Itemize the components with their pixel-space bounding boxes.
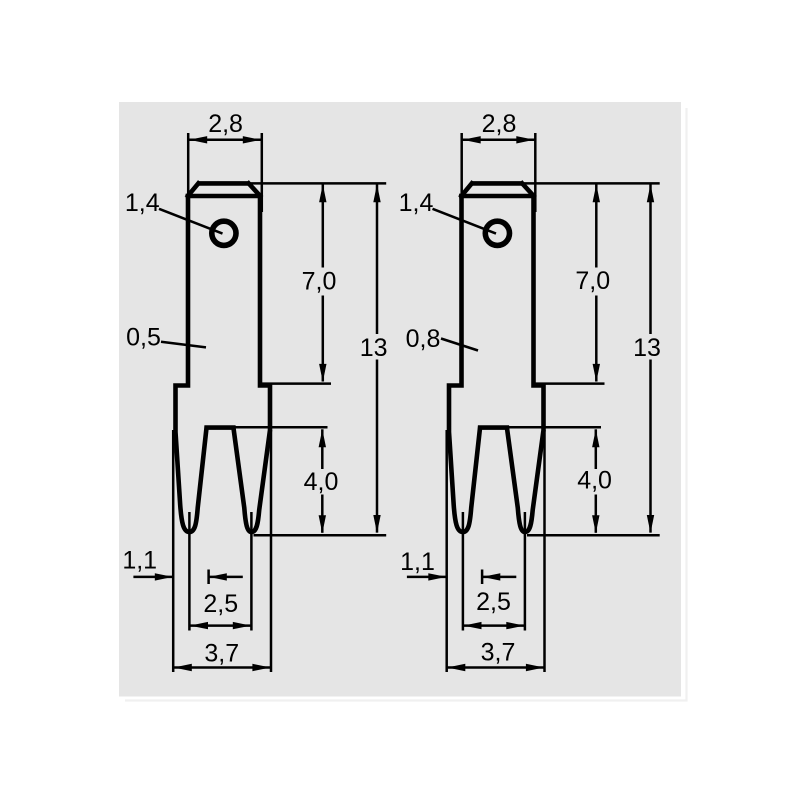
svg-text:2,8: 2,8 — [482, 110, 517, 138]
dimension 13 overall length A — [360, 184, 388, 533]
dimension 1,1 prong width B — [400, 548, 516, 584]
dimension 2,5 prong pitch A — [189, 512, 251, 631]
panel shadow — [125, 108, 687, 701]
shoulder extension line B — [536, 382, 605, 385]
gray drawing panel — [119, 102, 681, 697]
dimension 4,0 slot depth B — [577, 429, 612, 533]
svg-text:1,1: 1,1 — [122, 547, 157, 575]
mounting hole B (dia 1,4) — [485, 221, 509, 245]
svg-text:3,7: 3,7 — [481, 639, 516, 667]
top reference line A — [250, 182, 386, 185]
dimension 1,1 prong width A — [122, 547, 242, 584]
dimension 2,8 width B — [462, 110, 536, 212]
top reference line B — [524, 182, 660, 185]
svg-text:0,5: 0,5 — [126, 324, 161, 352]
mounting hole A (dia 1,4) — [212, 221, 236, 245]
terminal tab A body outline — [176, 196, 271, 532]
svg-text:2,5: 2,5 — [203, 590, 238, 618]
slot-top extension line A — [234, 426, 328, 429]
dimension 3,7 overall width A — [173, 430, 271, 672]
bottom reference line A — [254, 534, 387, 537]
svg-text:13: 13 — [360, 334, 388, 362]
svg-text:13: 13 — [633, 334, 661, 362]
dimension 13 overall length B — [633, 184, 661, 533]
svg-text:3,7: 3,7 — [204, 640, 239, 668]
dimension 7,0 shank length A — [302, 184, 337, 382]
terminal tab B chamfered tip — [461, 183, 533, 196]
dimension 7,0 shank length B — [575, 184, 610, 382]
svg-text:1,1: 1,1 — [400, 548, 435, 576]
dimension 3,7 overall width B — [447, 430, 545, 672]
svg-text:2,8: 2,8 — [208, 110, 243, 138]
svg-text:4,0: 4,0 — [577, 467, 612, 495]
svg-text:1,4: 1,4 — [125, 189, 160, 217]
material thickness label B with leader — [406, 325, 478, 353]
terminal tab B body outline — [449, 196, 544, 532]
dimension 2,8 width A — [188, 110, 262, 212]
svg-text:7,0: 7,0 — [575, 267, 610, 295]
svg-text:0,8: 0,8 — [406, 325, 441, 353]
svg-text:1,4: 1,4 — [399, 189, 434, 217]
shoulder extension line A — [262, 382, 331, 385]
svg-text:4,0: 4,0 — [304, 468, 339, 496]
dimension 2,5 prong pitch B — [463, 512, 525, 631]
hole diameter label 1,4 A with leader — [125, 189, 223, 233]
hole diameter label 1,4 B with leader — [399, 189, 496, 233]
slot-top extension line B — [508, 426, 602, 429]
material thickness label A with leader — [126, 324, 206, 352]
dimension 4,0 slot depth A — [304, 429, 339, 533]
svg-text:7,0: 7,0 — [302, 268, 337, 296]
svg-text:2,5: 2,5 — [476, 588, 511, 616]
terminal tab A chamfered tip — [188, 183, 260, 196]
bottom reference line B — [527, 534, 660, 537]
